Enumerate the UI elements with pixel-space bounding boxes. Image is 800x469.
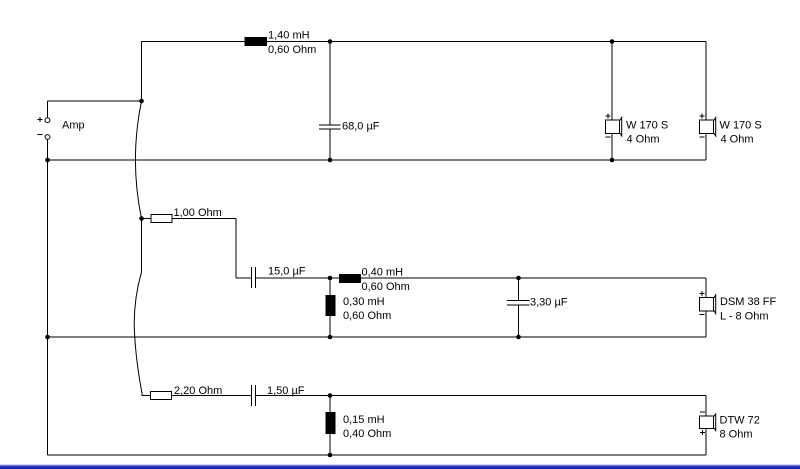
wire DSM top lead: [705, 278, 707, 298]
wire speaker1 top lead: [611, 42, 613, 121]
svg-text:0,30 mH: 0,30 mH: [343, 296, 385, 308]
inductor L3 0,30mH: [326, 295, 336, 316]
wire C33 top lead: [518, 278, 520, 301]
wire plus terminal stub: [47, 101, 49, 118]
wire C33 bottom lead: [518, 305, 520, 337]
wire R1 right lead: [172, 218, 236, 220]
resistor R1 1,00 Ohm: [151, 215, 172, 223]
svg-text:0,40 Ohm: 0,40 Ohm: [343, 428, 391, 440]
svg-text:4 Ohm: 4 Ohm: [721, 134, 754, 146]
node top-cap junction: [328, 39, 333, 44]
wire speaker2 top lead: [705, 42, 707, 121]
wire mid bottom rail: [48, 336, 707, 338]
svg-text:DSM 38 FF: DSM 38 FF: [720, 296, 777, 308]
wire cap15 left lead: [236, 277, 251, 279]
node speaker1 bottom junction: [610, 158, 615, 163]
svg-text:0,15 mH: 0,15 mH: [343, 414, 385, 426]
node mid rail left junction: [45, 335, 50, 340]
wire L3 bottom lead: [329, 316, 331, 337]
svg-text:1,40 mH: 1,40 mH: [268, 29, 310, 41]
capacitor C68 plates: [319, 125, 341, 129]
node speaker1 top junction: [610, 39, 615, 44]
svg-text:4 Ohm: 4 Ohm: [627, 134, 660, 146]
terminal minus circle: [45, 135, 50, 140]
svg-text:0,60 Ohm: 0,60 Ohm: [343, 310, 391, 322]
svg-text:8 Ohm: 8 Ohm: [720, 429, 753, 441]
wire R2 right lead: [172, 395, 252, 397]
capacitor C33 plates: [507, 301, 530, 306]
wire cap68 bottom lead: [329, 129, 331, 160]
wire plus feed: [48, 100, 142, 102]
wire speaker2 bottom lead: [705, 134, 707, 161]
speaker DTW72: [700, 412, 716, 435]
wire mid drop: [235, 219, 237, 279]
svg-text:W 170 S: W 170 S: [720, 120, 762, 132]
inductor L2 0,40mH: [339, 274, 361, 283]
svg-text:0,60 Ohm: 0,60 Ohm: [268, 44, 316, 56]
node feed junction A: [139, 99, 144, 104]
capacitor C150 plates: [252, 385, 256, 406]
wire minus terminal stub: [47, 139, 49, 160]
svg-text:3,30 µF: 3,30 µF: [530, 296, 568, 308]
svg-text:Amp: Amp: [62, 120, 85, 132]
wire L4 bottom lead: [329, 434, 331, 455]
svg-text:0,60 Ohm: 0,60 Ohm: [362, 281, 410, 293]
wire cap68 top lead: [329, 42, 331, 126]
speaker DSM38FF: [700, 291, 716, 314]
amp minus sign: [38, 134, 43, 136]
wire R1 left lead: [142, 218, 152, 220]
wire L3 top lead: [329, 278, 331, 295]
svg-text:L - 8 Ohm: L - 8 Ohm: [720, 311, 769, 323]
wire hop curve lower: [134, 219, 150, 396]
svg-text:15,0 µF: 15,0 µF: [268, 265, 306, 277]
speaker LS1 W170S: [606, 113, 622, 136]
node L4 top junction: [328, 393, 333, 398]
terminal plus circle: [45, 118, 50, 123]
wire DSM bottom lead: [705, 311, 707, 337]
node C33 bottom junction: [516, 335, 521, 340]
capacitor C15 plates: [252, 267, 256, 288]
node L3 bottom junction: [328, 335, 333, 340]
amp plus sign: [38, 117, 43, 122]
status bar: [0, 463, 800, 469]
node left minus junction: [45, 158, 50, 163]
wire left rail: [47, 160, 49, 455]
wire top-left riser: [141, 42, 143, 102]
wire DTW top lead: [705, 396, 707, 417]
svg-text:W 170 S: W 170 S: [626, 120, 668, 132]
node L4 bottom junction: [328, 453, 333, 458]
wire DTW bottom lead: [705, 429, 707, 456]
wire mid row: [256, 277, 706, 279]
wire bottom rail: [48, 454, 707, 456]
speaker LS2 W170S: [700, 113, 716, 136]
svg-text:68,0 µF: 68,0 µF: [342, 120, 380, 132]
node mid branch junction: [139, 216, 144, 221]
svg-text:0,40 mH: 0,40 mH: [362, 266, 404, 278]
wire bottom row: [256, 395, 706, 397]
resistor R2 2,20 Ohm: [151, 392, 172, 400]
wire top rail: [142, 41, 707, 43]
inductor L4 0,15mH: [326, 412, 336, 434]
inductor L1 1,40mH: [245, 37, 268, 46]
wire top section bottom rail: [48, 159, 707, 161]
wire speaker1 bottom lead: [611, 134, 613, 161]
node cap68 bottom junction: [328, 158, 333, 163]
svg-text:DTW 72: DTW 72: [720, 415, 760, 427]
svg-text:1,00 Ohm: 1,00 Ohm: [174, 207, 222, 219]
wire L4 top lead: [329, 396, 331, 413]
node C33 top junction: [516, 276, 521, 281]
wire hop curve upper: [136, 101, 142, 219]
node L3 top junction: [328, 276, 333, 281]
